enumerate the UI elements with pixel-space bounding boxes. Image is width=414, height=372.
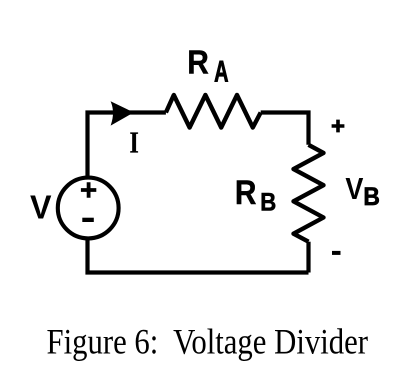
wire: top-right segment (R_A to R_B top)	[261, 113, 309, 145]
label V_B	[345, 171, 380, 211]
current arrow I	[112, 102, 133, 124]
label R_A	[187, 44, 228, 89]
resistor R_B (zigzag)	[294, 145, 324, 242]
svg-text:R: R	[235, 174, 257, 212]
caption: Figure 6: Voltage Divider	[47, 321, 369, 361]
svg-text:Figure 6: Voltage Divider: Figure 6: Voltage Divider	[47, 321, 369, 361]
svg-text:B: B	[260, 189, 276, 217]
resistor R_A (zigzag)	[166, 95, 261, 128]
plus polarity mark (V_B top)	[332, 120, 345, 133]
label V (source)	[30, 188, 52, 225]
label I	[130, 125, 139, 160]
svg-text:B: B	[363, 183, 380, 211]
wire: top-left segment (source top to R_A)	[88, 113, 166, 179]
plus mark inside source	[81, 182, 96, 197]
svg-text:A: A	[214, 55, 228, 88]
wire: right-bottom segment (R_B to bottom wire)	[306, 242, 310, 273]
wire: bottom segment (to source bottom)	[88, 239, 309, 273]
svg-text:V: V	[345, 171, 363, 206]
minus polarity mark (V_B bottom)	[332, 251, 341, 255]
svg-text:I: I	[130, 125, 139, 160]
svg-text:V: V	[30, 188, 52, 225]
minus mark inside source	[82, 218, 94, 222]
voltage source V (circle)	[58, 178, 119, 239]
svg-text:R: R	[187, 44, 209, 81]
label R_B	[235, 174, 276, 216]
